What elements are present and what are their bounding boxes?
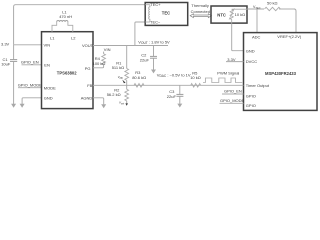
- svg-text:50 kΩ: 50 kΩ: [267, 1, 278, 6]
- svg-text:TEC+: TEC+: [150, 2, 161, 7]
- svg-text:Connected: Connected: [191, 9, 210, 14]
- wire GND pin to ground: [22, 98, 41, 104]
- svg-text:22uF: 22uF: [167, 94, 177, 99]
- thermoelectric cooler TEC box: [145, 2, 188, 25]
- thermally connected arrow: [190, 3, 211, 18]
- svg-text:VREF+(2.2V): VREF+(2.2V): [277, 34, 302, 39]
- svg-text:GPIO_EN: GPIO_EN: [224, 89, 242, 94]
- wire VOUT rail: [93, 45, 168, 47]
- resistor R4 100 kOhm pull-up to VIN: [93, 47, 111, 68]
- svg-text:VIN: VIN: [44, 42, 51, 47]
- svg-text:10uF: 10uF: [1, 61, 11, 66]
- wire GPIO_EN stub: [22, 64, 42, 66]
- thermistor NTC box: [211, 6, 247, 23]
- ground below C1: [11, 62, 16, 108]
- svg-text:EN: EN: [44, 62, 50, 67]
- wire TEC- riser from VOUT rail: [135, 22, 145, 46]
- svg-text:GPIO: GPIO: [246, 103, 256, 108]
- capacitor C3: [167, 85, 184, 99]
- wire 3.3V to VIN pin: [14, 44, 42, 46]
- wire AGND to ground: [93, 98, 104, 105]
- resistor R1 511 kOhm: [112, 46, 129, 86]
- svg-text:L2: L2: [71, 35, 76, 40]
- TEC element coil: [145, 4, 150, 6]
- wire junction down to ADC: [256, 9, 258, 33]
- NTC zigzag: [230, 9, 233, 19]
- svg-text:PG: PG: [85, 66, 91, 71]
- capacitor C1: [1, 45, 17, 67]
- svg-text:PWM Signal: PWM Signal: [217, 70, 239, 75]
- svg-text:FB: FB: [87, 83, 92, 88]
- ground below C3: [177, 97, 182, 108]
- svg-text:TEC: TEC: [162, 11, 170, 16]
- svg-text:ADC: ADC: [252, 34, 261, 39]
- svg-text:VOUT : 1.8V to 5V: VOUT : 1.8V to 5V: [138, 39, 170, 45]
- svg-text:GPIO_MODE: GPIO_MODE: [220, 98, 245, 103]
- svg-text:100 kΩ: 100 kΩ: [93, 61, 106, 66]
- node 3.3V DVCC stub: [226, 61, 244, 63]
- svg-text:56.2 kΩ: 56.2 kΩ: [107, 92, 121, 97]
- svg-text:3.3V: 3.3V: [1, 41, 10, 46]
- svg-text:Thermally: Thermally: [191, 3, 209, 8]
- svg-text:10 kΩ: 10 kΩ: [190, 75, 201, 80]
- ground at AGND: [101, 104, 106, 108]
- PWM waveform annotation: [203, 70, 242, 82]
- resistor R5 10 kOhm: [190, 70, 201, 87]
- node VFB annotation arrow: [118, 75, 126, 83]
- svg-text:VDAC : ~0.5V to 1V: VDAC : ~0.5V to 1V: [157, 72, 191, 78]
- svg-text:MSP430FR2433: MSP430FR2433: [265, 71, 297, 76]
- wire GPIO_MODE stub: [18, 87, 42, 89]
- svg-text:NTC: NTC: [217, 13, 226, 18]
- wire NTC bottom to MSP GND: [232, 23, 244, 51]
- wire GPIO_EN to MSP: [222, 93, 244, 95]
- ground at GND pin: [20, 104, 25, 108]
- wire GPIO_MODE to MSP: [220, 102, 244, 104]
- wire 3.3V rail top: from 3.3V node up and right to TEC+: [14, 5, 145, 45]
- svg-text:511 kΩ: 511 kΩ: [112, 65, 124, 70]
- svg-text:GPIO: GPIO: [246, 93, 256, 98]
- svg-text:MODE: MODE: [44, 85, 56, 90]
- svg-text:DVCC: DVCC: [246, 59, 257, 64]
- svg-text:GND: GND: [44, 96, 53, 101]
- capacitor C2: [140, 46, 157, 63]
- wire FB net: [93, 84, 244, 86]
- svg-text:AGND: AGND: [81, 96, 93, 101]
- svg-text:80.6 kΩ: 80.6 kΩ: [132, 75, 146, 80]
- svg-text:VIN: VIN: [104, 47, 111, 52]
- svg-text:GND: GND: [246, 49, 255, 54]
- svg-text:22uF: 22uF: [140, 58, 150, 63]
- svg-text:TPS63802: TPS63802: [57, 70, 77, 75]
- ground below C2: [151, 59, 156, 74]
- converter IC U1 TPS63802 buck-boost: [42, 32, 94, 109]
- svg-text:470 nH: 470 nH: [59, 14, 72, 19]
- inductor L1 470 nH: [52, 10, 73, 32]
- resistor R3 80.6 kOhm: [132, 70, 146, 87]
- svg-text:Timer Output: Timer Output: [246, 83, 270, 88]
- resistor 50 kOhm (VREF bias): [265, 1, 281, 11]
- microcontroller U2 MSP430FR2433: [244, 33, 318, 111]
- svg-text:GPIO_EN: GPIO_EN: [21, 60, 39, 65]
- svg-text:L1: L1: [50, 35, 55, 40]
- svg-text:TEC−: TEC−: [150, 20, 161, 25]
- svg-text:3.3V: 3.3V: [227, 57, 236, 62]
- resistor R2 56.2 kOhm: [107, 85, 129, 106]
- wire NTC to VTEMP node and VREF: [247, 8, 264, 10]
- svg-text:VOUT: VOUT: [82, 43, 94, 48]
- svg-text:10 kΩ: 10 kΩ: [235, 12, 246, 17]
- svg-text:GPIO_MODE: GPIO_MODE: [18, 83, 43, 88]
